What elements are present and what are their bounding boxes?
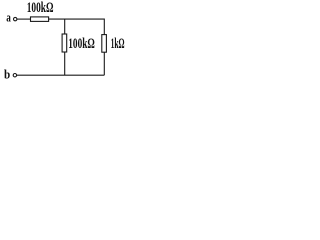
svg-text:100kΩ: 100kΩ bbox=[68, 36, 95, 52]
svg-text:1kΩ: 1kΩ bbox=[111, 36, 125, 52]
svg-text:b: b bbox=[4, 66, 10, 81]
svg-text:100kΩ: 100kΩ bbox=[27, 0, 54, 16]
svg-text:a: a bbox=[6, 11, 11, 25]
